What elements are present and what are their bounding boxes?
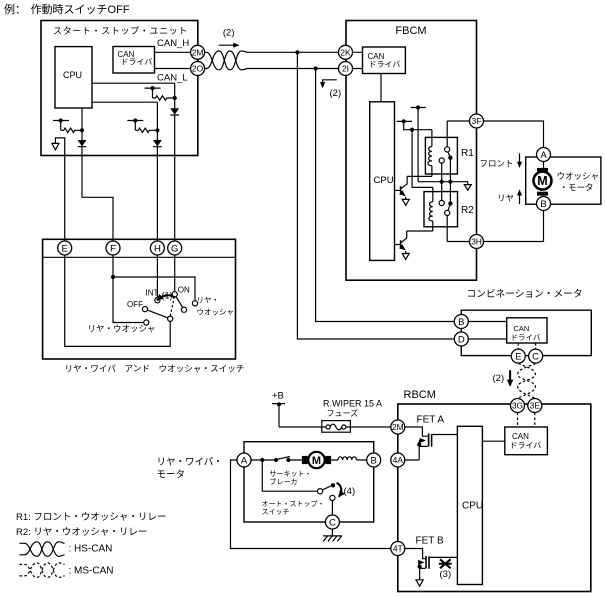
svg-text:A: A <box>241 455 248 466</box>
svg-text:・モータ: ・モータ <box>560 183 594 193</box>
svg-text:R1: R1 <box>461 148 474 159</box>
svg-text:(2): (2) <box>493 373 505 384</box>
svg-text:E: E <box>515 351 521 362</box>
svg-text:フューズ: フューズ <box>327 408 359 418</box>
svg-text:ウオッシャ: ウオッシャ <box>557 171 600 181</box>
svg-text:2M: 2M <box>192 47 204 57</box>
svg-text:スタート・ストップ・ユニット: スタート・ストップ・ユニット <box>53 26 188 36</box>
svg-text:3F: 3F <box>472 116 482 126</box>
svg-text:FET B: FET B <box>416 536 444 547</box>
svg-text:R.WIPER 15 A: R.WIPER 15 A <box>323 399 382 409</box>
svg-text:4T: 4T <box>393 544 403 554</box>
svg-text:R2: リヤ・ウオッシャ・リレー: R2: リヤ・ウオッシャ・リレー <box>16 527 147 538</box>
svg-text:D: D <box>458 334 465 345</box>
svg-text:M: M <box>537 174 547 188</box>
svg-text:3H: 3H <box>471 237 482 247</box>
svg-text:: MS-CAN: : MS-CAN <box>69 566 114 577</box>
svg-text:ドライバ: ドライバ <box>121 58 153 67</box>
svg-text:ON: ON <box>178 285 190 294</box>
svg-text:FET A: FET A <box>417 415 445 426</box>
svg-text:ドライバ: ドライバ <box>511 333 541 342</box>
svg-text:H: H <box>154 243 161 254</box>
svg-text:CAN: CAN <box>512 432 529 441</box>
svg-text:B: B <box>458 317 464 328</box>
svg-text:モータ: モータ <box>157 470 186 481</box>
svg-text:R1: フロント・ウオッシャ・リレー: R1: フロント・ウオッシャ・リレー <box>16 512 166 523</box>
svg-text:CAN: CAN <box>514 324 530 333</box>
svg-text:: HS-CAN: : HS-CAN <box>69 544 113 555</box>
svg-text:4A: 4A <box>393 455 404 465</box>
svg-text:(3): (3) <box>440 569 452 580</box>
svg-text:A: A <box>540 150 547 161</box>
svg-text:RBCM: RBCM <box>404 389 436 401</box>
svg-text:2K: 2K <box>340 47 351 57</box>
svg-text:C: C <box>532 351 539 362</box>
svg-text:リヤ・: リヤ・ <box>197 296 220 305</box>
svg-text:(4): (4) <box>344 486 356 497</box>
svg-text:CPU: CPU <box>462 501 483 512</box>
svg-text:CAN_L: CAN_L <box>157 73 188 84</box>
svg-text:リヤ・ウオッシャ: リヤ・ウオッシャ <box>88 324 156 334</box>
svg-text:FBCM: FBCM <box>395 25 426 37</box>
svg-text:ドライバ: ドライバ <box>510 441 542 450</box>
svg-text:リヤ・ワイパ・: リヤ・ワイパ・ <box>157 457 223 468</box>
svg-text:CPU: CPU <box>374 175 394 186</box>
svg-text:(1): (1) <box>162 291 173 301</box>
svg-text:例： 作動時スイッチOFF: 例： 作動時スイッチOFF <box>4 2 130 16</box>
svg-text:M: M <box>312 455 321 467</box>
svg-text:リヤ: リヤ <box>497 193 514 203</box>
svg-text:コンビネーション・メータ: コンビネーション・メータ <box>467 288 583 300</box>
svg-text:+B: +B <box>272 391 284 402</box>
svg-text:3G: 3G <box>512 401 523 411</box>
svg-text:フロント: フロント <box>480 159 514 169</box>
svg-text:C: C <box>329 517 336 528</box>
svg-text:オート・ストップ・: オート・ストップ・ <box>262 500 325 508</box>
svg-text:ウオッシャ: ウオッシャ <box>197 308 235 317</box>
svg-text:2M: 2M <box>392 422 404 432</box>
svg-text:INT: INT <box>146 289 159 298</box>
svg-text:B: B <box>540 199 546 210</box>
svg-text:F: F <box>110 243 116 254</box>
svg-text:E: E <box>62 243 68 254</box>
svg-text:R2: R2 <box>461 205 474 216</box>
svg-text:3E: 3E <box>530 401 541 411</box>
svg-text:CPU: CPU <box>63 70 82 80</box>
svg-text:リヤ・ワイパ アンド ウオッシャ・スイッチ: リヤ・ワイパ アンド ウオッシャ・スイッチ <box>65 364 245 374</box>
svg-text:OFF: OFF <box>127 300 143 309</box>
svg-text:G: G <box>171 243 178 254</box>
svg-text:スイッチ: スイッチ <box>262 508 290 516</box>
svg-text:CAN_H: CAN_H <box>157 38 189 49</box>
svg-text:(2): (2) <box>223 28 235 39</box>
svg-text:サーキット・: サーキット・ <box>270 470 312 478</box>
svg-text:2O: 2O <box>192 64 204 74</box>
svg-text:2I: 2I <box>342 64 349 74</box>
svg-text:ブレーカ: ブレーカ <box>270 477 298 486</box>
svg-text:ドライバ: ドライバ <box>369 60 401 69</box>
svg-text:(2): (2) <box>330 88 342 99</box>
svg-text:B: B <box>371 455 377 466</box>
